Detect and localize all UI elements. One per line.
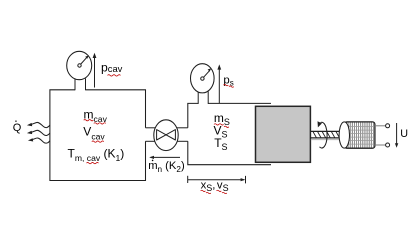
gauge 1 center pivot	[78, 64, 81, 67]
heat wavy arrow 3	[32, 138, 50, 143]
gauge 2 center pivot	[201, 77, 204, 80]
pressure gauge 1	[67, 51, 92, 79]
squiggle T cav	[87, 162, 99, 163]
squiggle V_cav	[92, 141, 104, 142]
gauge 2 needle	[202, 71, 209, 79]
box2 cylinder outline	[188, 103, 271, 164]
pipe box1-valve top	[146, 127, 158, 129]
arrow p_cav	[94, 56, 96, 88]
box1 cavity outline	[50, 90, 146, 181]
svg-text:pcav: pcav	[101, 60, 123, 74]
generator body	[344, 122, 375, 148]
valve circle	[154, 120, 178, 151]
shaft	[310, 130, 339, 132]
pressure gauge 2	[191, 64, 215, 93]
pipe valve-box2 top	[175, 127, 188, 129]
rotation arrow around shaft	[320, 122, 328, 148]
squiggle m_cav	[84, 120, 94, 121]
terminal wire top	[375, 125, 386, 127]
terminal bottom	[386, 143, 390, 147]
terminal wire bottom	[375, 144, 386, 146]
shaft hatching	[313, 132, 339, 138]
squiggle x_S	[201, 190, 206, 191]
heat wavy arrow 2	[31, 130, 50, 135]
dimension line x_s	[188, 179, 244, 181]
generator left end cap	[339, 122, 349, 148]
gauge stem 2	[198, 92, 208, 104]
valve bowtie	[157, 130, 176, 140]
shaft shadow line	[311, 139, 341, 141]
piston block	[256, 106, 311, 162]
heat wavy arrow 1	[31, 122, 50, 127]
squiggle p_cav	[108, 75, 121, 76]
squiggle m_S	[214, 124, 224, 125]
arrow p_s	[218, 68, 220, 104]
gauge stem 1	[75, 79, 86, 91]
svg-text:Q: Q	[13, 122, 22, 134]
pipe valve-box2 bottom	[175, 140, 188, 142]
terminal top	[386, 124, 390, 128]
U arrow	[396, 123, 398, 145]
mdot_n arrow	[151, 156, 181, 158]
squiggle v_S	[217, 190, 222, 191]
squiggle p_s	[224, 84, 229, 85]
generator winding horizontal lines	[346, 127, 375, 145]
svg-text:U: U	[400, 128, 408, 140]
pipe box1-valve bottom	[146, 140, 158, 142]
generator ribs	[347, 122, 374, 148]
gauge 1 needle	[80, 57, 88, 65]
